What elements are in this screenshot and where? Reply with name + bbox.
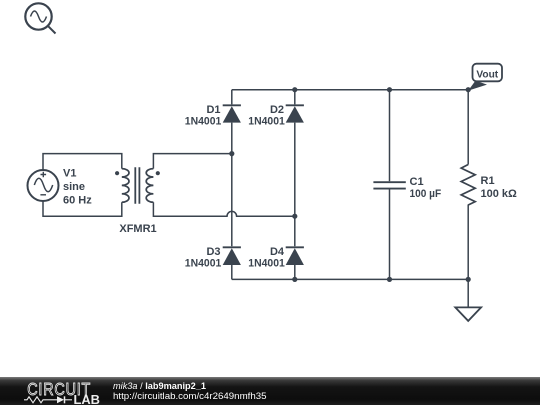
svg-text:100 kΩ: 100 kΩ: [481, 188, 518, 200]
footer text: [113, 381, 267, 401]
diode D2: [286, 105, 304, 122]
junction dot C1 top rail: [387, 87, 392, 92]
secondary phase dot: [156, 171, 160, 175]
V1 labels: [63, 168, 92, 207]
junction dot D2 top rail: [292, 87, 297, 92]
Vout flag box: [473, 64, 503, 82]
junction dot node B secondary bottom: [292, 214, 297, 219]
wire secondary bottom with hop to node B: [153, 202, 294, 216]
wire secondary top to node A: [153, 154, 231, 169]
primary phase dot: [115, 171, 119, 175]
junction dot C1 bottom rail: [387, 277, 392, 282]
transformer XFMR1 primary coil: [122, 169, 129, 203]
transformer core: [135, 167, 139, 204]
junction dot D4 bottom rail: [292, 277, 297, 282]
svg-text:D1: D1: [206, 104, 220, 116]
svg-text:C1: C1: [410, 176, 424, 188]
svg-text:http://circuitlab.com/c4r2649n: http://circuitlab.com/c4r2649nmfh35: [113, 391, 267, 401]
svg-text:Vout: Vout: [476, 68, 498, 80]
Vout flag wedge: [468, 81, 487, 91]
svg-text:mik3a / lab9manip2_1: mik3a / lab9manip2_1: [113, 381, 206, 391]
diode D1: [223, 105, 241, 122]
svg-text:1N4001: 1N4001: [185, 116, 222, 128]
diode D2 branch wire: [294, 90, 296, 280]
svg-text:1N4001: 1N4001: [248, 116, 285, 128]
diode D4: [286, 247, 304, 265]
junction dot Vout node: [466, 87, 471, 92]
wire V1 top to primary: [43, 154, 122, 170]
svg-text:60 Hz: 60 Hz: [63, 195, 92, 207]
transformer XFMR1 secondary coil: [146, 169, 153, 203]
top rail: [232, 89, 468, 91]
junction dot node A secondary top: [229, 151, 234, 156]
wire V1 bottom to primary: [43, 201, 122, 216]
junction dot ground node: [466, 277, 471, 282]
ghost sine source circle top-left: [25, 3, 55, 33]
svg-text:XFMR1: XFMR1: [119, 223, 156, 235]
ground: [455, 307, 481, 321]
diode D1 branch wire: [231, 90, 233, 280]
svg-text:sine: sine: [63, 181, 85, 193]
resistor R1 zigzag: [461, 165, 475, 205]
svg-text:LAB: LAB: [74, 393, 101, 405]
svg-text:R1: R1: [481, 175, 495, 187]
capacitor C1 leads: [389, 90, 391, 280]
svg-text:100 µF: 100 µF: [410, 188, 442, 200]
diode D3: [223, 247, 241, 265]
svg-text:D4: D4: [270, 246, 285, 258]
svg-text:1N4001: 1N4001: [185, 258, 222, 270]
svg-text:V1: V1: [63, 168, 76, 180]
svg-text:D3: D3: [206, 246, 220, 258]
voltage source V1: [28, 170, 59, 201]
svg-text:1N4001: 1N4001: [248, 258, 285, 270]
junction dots: [229, 87, 471, 282]
svg-text:D2: D2: [270, 104, 284, 116]
CircuitLab logo: [24, 381, 100, 405]
bottom rail: [232, 278, 468, 280]
capacitor C1: [373, 182, 405, 188]
resistor R1 leads: [467, 90, 469, 308]
